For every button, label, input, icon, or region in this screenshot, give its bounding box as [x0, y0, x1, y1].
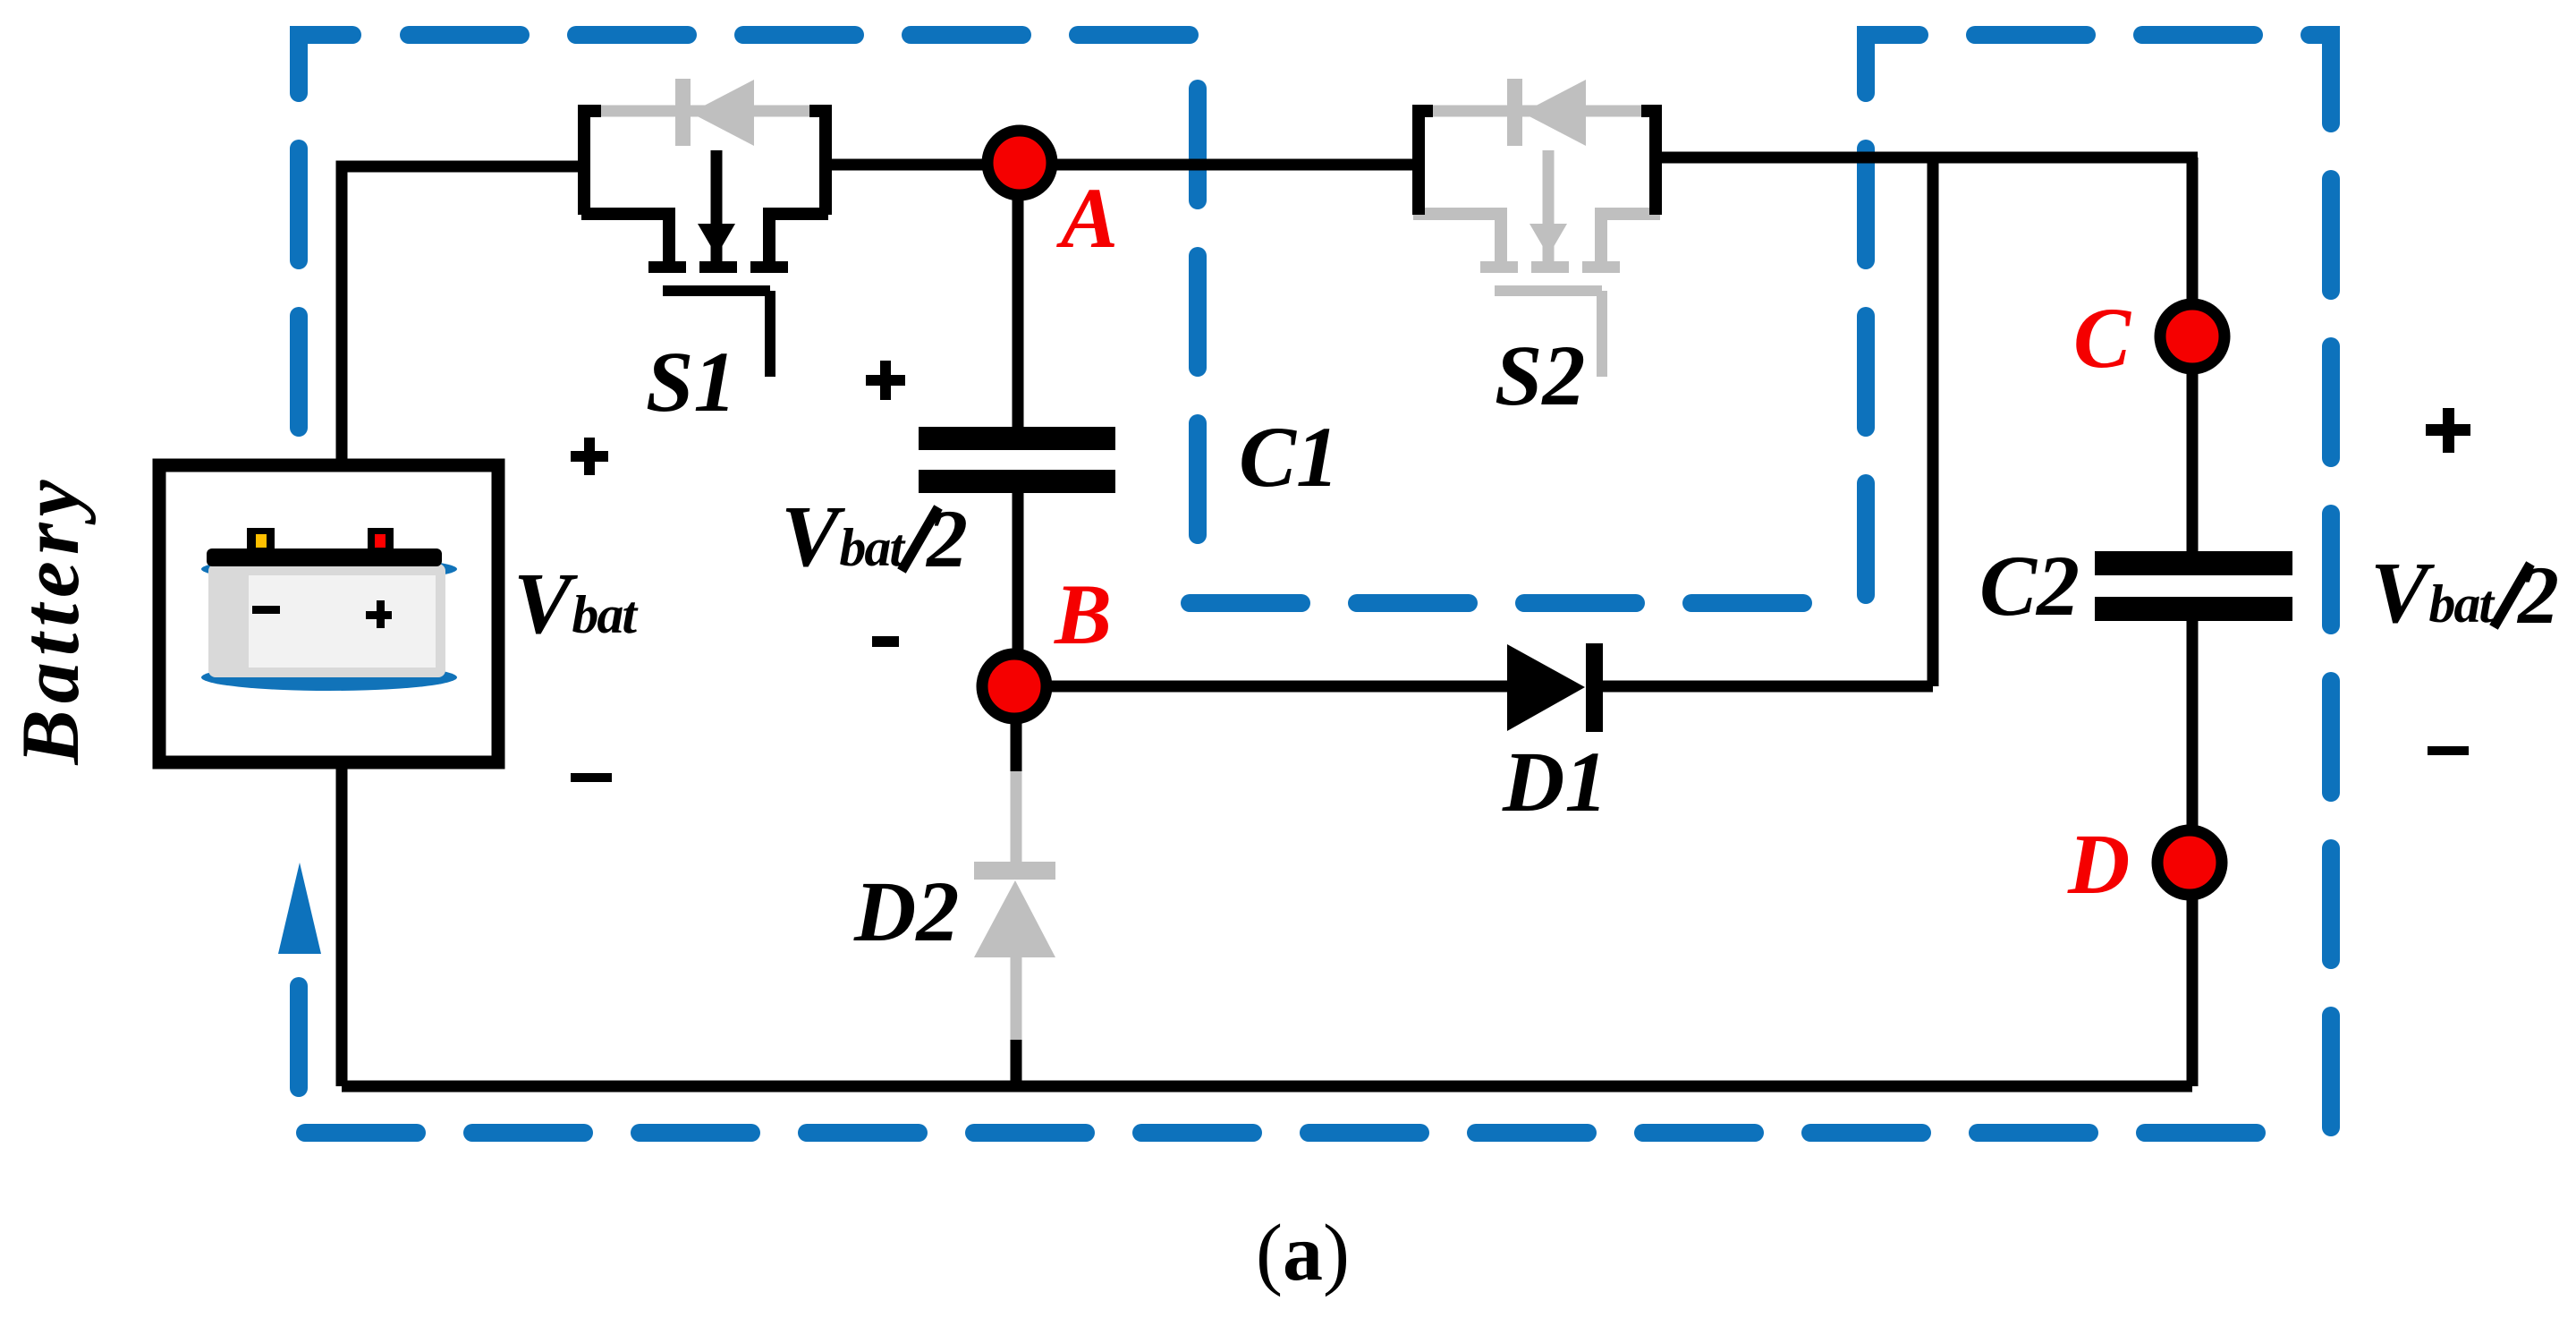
S2 body diode triangle (gray, pointing left) [1522, 80, 1586, 146]
S2 terminal pads (gray) [1480, 261, 1620, 273]
svg-text:(a): (a) [1256, 1209, 1350, 1297]
current direction arrow (blue, pointing up) [278, 863, 321, 954]
svg-text:2: 2 [925, 493, 968, 584]
S1 source staircase [769, 214, 828, 263]
svg-text:A: A [1056, 170, 1118, 266]
blue dashed boundary: right box top edge [1975, 26, 2254, 44]
wire: node A down to C1 top [1013, 170, 1024, 429]
polarity - battery bottom [571, 773, 612, 782]
S2 gate lead (gray) [1597, 291, 1607, 377]
S2 body diode cathode bar (gray) [1507, 79, 1522, 146]
S1 source bracket (black) [809, 111, 826, 215]
blue dashed boundary: notch right vertical [1857, 149, 1875, 613]
svg-text:C2: C2 [1979, 538, 2080, 633]
wire: bottom rail [342, 1081, 2192, 1093]
wire: junction drop from top wire to D1 output [1928, 157, 1939, 686]
S1 drain bracket (black) [584, 111, 601, 215]
wire: C1 bottom to node B [1013, 490, 1024, 689]
blue dashed boundary: notch right vertical corner [1866, 35, 1919, 93]
node D [2157, 830, 2222, 895]
wire: battery positive to S1 drain [342, 166, 584, 467]
svg-text:D2: D2 [853, 863, 959, 959]
blue dashed boundary: C1 notch left vertical [1189, 89, 1207, 539]
svg-text:S1: S1 [646, 334, 736, 429]
svg-text:C1: C1 [1239, 409, 1339, 505]
blue dashed boundary: left box left edge upper [290, 149, 308, 428]
battery clipart [201, 528, 457, 691]
S2 body diode line (gray) [1428, 106, 1653, 117]
WIRES-GROUP [342, 157, 2198, 1086]
S2 drain bracket (black) [1419, 111, 1433, 215]
label Vbat/2 at C1 [781, 489, 968, 585]
wire: S1 source to node A [826, 159, 1024, 171]
svg-text:D: D [2067, 816, 2130, 912]
polarity - C1 [872, 636, 899, 647]
blue dashed boundary: left box top-left corner [299, 35, 352, 93]
S1 terminal pads [648, 261, 788, 273]
wire: battery negative down to bottom rail [336, 761, 348, 1086]
svg-text:S2: S2 [1495, 327, 1585, 423]
S1 body diode line (gray) [596, 106, 821, 117]
blue dashed boundary: left box left edge lower dash [290, 986, 308, 1088]
capacitor C1 [919, 427, 1115, 493]
capacitor C2 [2095, 551, 2292, 621]
node B [982, 654, 1046, 719]
BOUNDARY-GROUP [299, 35, 2331, 1138]
blue dashed boundary: bottom edge [305, 1124, 2276, 1142]
polarity - C2 [2428, 746, 2469, 755]
wire: node A to S2 drain [1012, 159, 1419, 171]
node A [987, 131, 1052, 195]
svg-text:2: 2 [2516, 549, 2559, 641]
polarity + C2 [2426, 408, 2470, 453]
blue dashed boundary: middle horizontal below S2 [1190, 594, 1809, 612]
svg-text:C: C [2073, 290, 2131, 386]
S2 drain staircase (gray) [1413, 214, 1501, 263]
svg-text:B: B [1054, 566, 1112, 662]
MOSFET S1 (black) with gray body diode [581, 79, 828, 377]
polarity + C1 [866, 361, 905, 400]
S1 body diode triangle (gray, pointing left) [691, 80, 754, 146]
wire: node B down to D2 cathode [1011, 689, 1022, 775]
wire: D2 anode down to bottom rail [1011, 1036, 1022, 1086]
polarity + battery top [571, 438, 608, 475]
S2 source bracket (black) [1641, 111, 1656, 215]
MOSFET S2 (gray) with black terminals [1413, 79, 1660, 377]
wire: node B to D1 anode [1014, 681, 1512, 693]
blue dashed boundary: right box right edge [2322, 179, 2340, 1138]
battery box [159, 465, 498, 762]
S1 gate lead [765, 291, 775, 377]
wire: S2 source to top-right corner [1656, 152, 2198, 164]
wire: bottom-right riser to C2 bottom [2187, 620, 2199, 1086]
label Vbat/2 at C2 [2370, 545, 2559, 642]
wire: D1 cathode to junction corner [1601, 681, 1933, 693]
S1 drain staircase [581, 214, 669, 263]
S1 body diode cathode bar (gray) [675, 79, 691, 146]
diode D2 (gray, pointing up) [974, 771, 1055, 1040]
S1 substrate arrow [711, 150, 723, 261]
blue dashed boundary: right box top-right corner [2309, 35, 2331, 123]
blue dashed boundary: left box top edge [409, 26, 1194, 44]
S1 gate bar [663, 285, 770, 296]
S2 source staircase (gray) [1601, 214, 1660, 263]
diode D1 (black, pointing right) [1507, 643, 1603, 732]
svg-text:Battery: Battery [4, 474, 96, 766]
S2 gate bar (gray) [1495, 285, 1602, 296]
node C [2160, 304, 2224, 369]
S2 substrate arrow (gray) [1543, 150, 1555, 261]
wire: top-right corner down to node C and C2 [2187, 157, 2199, 553]
svg-text:D1: D1 [1502, 734, 1607, 829]
